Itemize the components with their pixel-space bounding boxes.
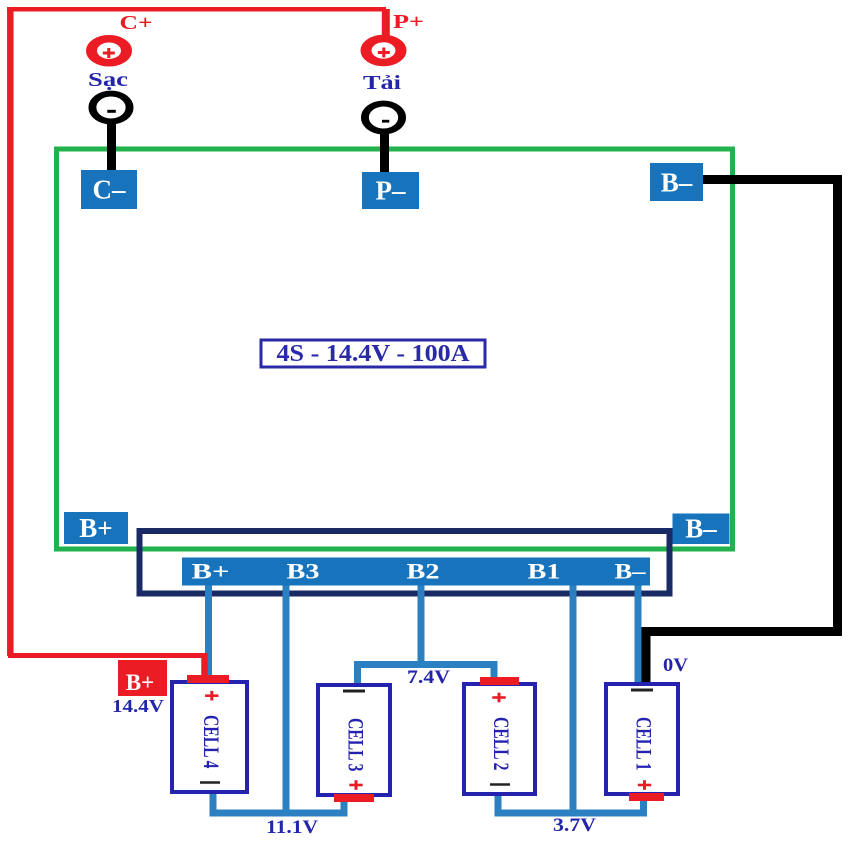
terminal ring Sac negative — [92, 94, 129, 122]
balance header bar — [182, 558, 650, 586]
svg-text:B2: B2 — [407, 559, 440, 584]
label P+ — [393, 11, 424, 33]
label 0V — [663, 656, 689, 676]
svg-text:CELL 4: CELL 4 — [199, 715, 224, 769]
pin label B3 — [287, 559, 320, 584]
battery CELL4 — [172, 682, 247, 792]
svg-text:4S - 14.4V - 100A: 4S - 14.4V - 100A — [277, 341, 471, 367]
wire: CELL4 negative to CELL3 positive (11.1V node) — [213, 790, 344, 813]
svg-text:B+: B+ — [192, 559, 230, 584]
wire: blue sense wire B- to CELL1 negative — [635, 585, 642, 684]
battery CELL1 — [606, 684, 678, 794]
CELL3 minus mark — [343, 690, 365, 693]
svg-text:B+: B+ — [126, 670, 154, 695]
pad B- right lower — [673, 514, 730, 545]
CELL2 minus mark — [490, 783, 510, 786]
svg-text:Sạc: Sạc — [88, 69, 128, 91]
terminal ring Tai negative — [365, 104, 402, 132]
label 14.4V — [112, 696, 164, 716]
CELL4 plus mark — [205, 691, 218, 701]
pad C- — [81, 170, 137, 209]
svg-text:C+: C+ — [120, 12, 153, 34]
label Sac (charger) — [88, 69, 128, 91]
pin label B+ — [192, 559, 230, 584]
wire: blue sense wire B2 — [418, 585, 425, 667]
CELL1 minus mark — [631, 689, 653, 692]
svg-text:B–: B– — [661, 168, 693, 198]
svg-text:B3: B3 — [287, 559, 320, 584]
wire: red positive bus from pack B+ up left side to P+ terminal — [7, 9, 386, 677]
label Tai (load) — [363, 72, 402, 94]
wire: CELL3 negative to CELL2 positive (7.4V node) — [358, 665, 495, 688]
battery CELL3 — [318, 685, 390, 795]
svg-text:CELL 3: CELL 3 — [344, 718, 369, 772]
svg-text:P–: P– — [376, 176, 406, 206]
CELL1 positive terminal cap — [629, 793, 664, 801]
CELL3 plus mark — [349, 780, 362, 790]
svg-text:B1: B1 — [528, 559, 561, 584]
pin label B2 — [407, 559, 440, 584]
CELL4 positive terminal cap — [187, 675, 229, 683]
svg-text:Tải: Tải — [363, 72, 402, 94]
CELL1 plus mark — [638, 780, 651, 790]
pad B+ left — [64, 512, 128, 544]
pad B- top right — [650, 163, 703, 201]
wire: black lead from B- pad right and down to CELL1 negative — [646, 180, 838, 685]
CELL3 name — [344, 718, 369, 772]
svg-text:CELL 2: CELL 2 — [489, 717, 514, 771]
wire: blue sense wire B1 — [570, 585, 577, 815]
BMS rating label 4S - 14.4V - 100A — [261, 340, 485, 367]
terminal ring C+ — [92, 39, 127, 63]
CELL1 name — [632, 717, 657, 771]
wire: blue sense wire B3 — [283, 585, 290, 815]
BMS board outline (green) — [57, 149, 733, 549]
CELL3 positive terminal cap — [334, 794, 374, 802]
label 3.7V — [553, 816, 597, 836]
pin label B- bar — [615, 559, 647, 584]
svg-text:CELL 1: CELL 1 — [632, 717, 657, 771]
label 11.1V — [266, 818, 319, 838]
svg-text:P+: P+ — [393, 11, 424, 33]
balance connector outline (navy) — [140, 531, 670, 594]
svg-text:11.1V: 11.1V — [266, 818, 319, 838]
wire: blue sense wire B+ to CELL4 positive — [205, 585, 212, 678]
svg-text:3.7V: 3.7V — [553, 816, 597, 836]
svg-text:C–: C– — [93, 175, 126, 205]
pack terminal label B+ (red box) — [118, 660, 167, 696]
wire: CELL2 negative to CELL1 positive (3.7V node) — [498, 792, 644, 813]
svg-text:7.4V: 7.4V — [407, 668, 451, 688]
CELL2 positive terminal cap — [480, 677, 519, 685]
label 7.4V — [407, 668, 451, 688]
svg-text:14.4V: 14.4V — [112, 696, 164, 716]
terminal ring P+ — [366, 39, 401, 63]
CELL4 minus mark — [200, 781, 220, 784]
svg-text:B+: B+ — [79, 513, 112, 543]
wire: black lead Tai terminal to P- pad — [380, 129, 389, 175]
wire: black lead Sac terminal to C- pad — [107, 121, 116, 172]
pad P- — [362, 172, 419, 209]
CELL2 plus mark — [492, 693, 505, 703]
svg-text:B–: B– — [615, 559, 647, 584]
svg-text:0V: 0V — [663, 656, 689, 676]
CELL4 name — [199, 715, 224, 769]
svg-text:B–: B– — [685, 514, 717, 544]
battery CELL2 — [464, 684, 535, 794]
pin label B1 — [528, 559, 561, 584]
CELL2 name — [489, 717, 514, 771]
label C+ — [120, 12, 153, 34]
